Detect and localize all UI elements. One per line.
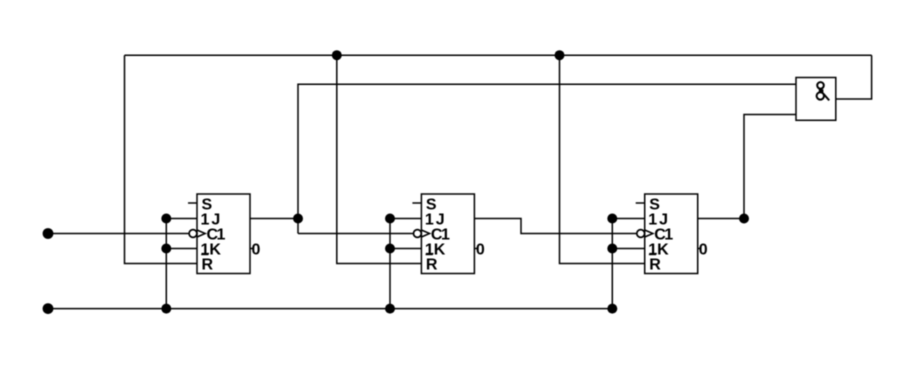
- wire: FF1 Q feedback bus to AND gate input 1: [298, 84, 796, 233]
- wire: clock input terminal to FF1 C1: [48, 233, 189, 235]
- FF1 inverted output stub: [250, 248, 253, 250]
- jk flip-flop FF2: [412, 194, 485, 274]
- FF2 body: [421, 194, 474, 274]
- junction FF1 tie at bottom bus: [161, 304, 171, 314]
- wire: FF3 Q up to AND gate input 2: [744, 115, 796, 219]
- wire: FF1 Q to FF2 C1 clock input: [298, 233, 413, 235]
- junction FF3 1K: [607, 244, 617, 254]
- input terminal: clock input: [43, 228, 54, 239]
- AND gate body: [796, 78, 836, 121]
- FF3 body: [645, 194, 698, 274]
- wire: vertical from reset bus down to FF2 R pin: [337, 55, 422, 263]
- wire: left vertical from reset bus down to FF1 R pin: [125, 55, 198, 263]
- FF3 S pin stub: [636, 202, 645, 204]
- wire: FF2 1J/1K tie vertical to bottom bus: [389, 219, 391, 309]
- wire: AND gate output up to reset bus: [836, 55, 872, 99]
- wire: stub to FF3 1J: [612, 218, 644, 220]
- junction FF2 tie at bottom bus: [385, 304, 395, 314]
- junction FF3 1J: [607, 214, 617, 224]
- FF1 clock wedge: [197, 230, 205, 237]
- AND gate U1: [796, 78, 836, 121]
- wire: stub to FF1 1J: [166, 218, 197, 220]
- wire: FF1 Q output to junction: [250, 218, 298, 220]
- svg-text:R: R: [426, 257, 438, 274]
- wire: FF3 1J/1K tie vertical to bottom bus: [611, 219, 613, 309]
- FF2 clock bubble: [414, 230, 422, 238]
- junction at FF3 Q output corner: [739, 214, 749, 224]
- wire: stub to FF3 1K: [612, 248, 644, 250]
- FF3 clock wedge: [645, 230, 653, 237]
- FF1 body: [197, 194, 250, 274]
- FF3 clock bubble: [637, 230, 645, 238]
- junction FF1 1J: [161, 214, 171, 224]
- junction on reset bus above FF2: [332, 50, 342, 60]
- wire: stub to FF2 1J: [390, 218, 421, 220]
- junction at FF1 Q output: [293, 214, 303, 224]
- wire: FF2 Q output to FF3 C1 clock input: [474, 219, 636, 234]
- svg-text:0: 0: [476, 242, 485, 259]
- junction FF1 1K: [161, 244, 171, 254]
- junction FF3 tie at end of bottom bus: [607, 304, 617, 314]
- input terminal: J/K high input: [43, 303, 54, 314]
- FF1 S pin stub: [188, 202, 197, 204]
- FF3 inverted output stub: [698, 248, 701, 250]
- AND gate label &: [817, 82, 830, 100]
- wire: FF3 Q output to corner: [698, 218, 744, 220]
- FF2 clock wedge: [421, 230, 429, 237]
- svg-text:0: 0: [699, 242, 708, 259]
- wire: stub to FF2 1K: [390, 248, 421, 250]
- FF2 S pin stub: [412, 202, 421, 204]
- jk flip-flop FF3: [636, 194, 708, 274]
- FF2 inverted output stub: [474, 248, 477, 250]
- jk flip-flop FF1: [188, 194, 261, 274]
- wire: vertical from reset bus down to FF3 R pin: [560, 55, 645, 263]
- FF1 clock bubble: [189, 230, 197, 238]
- wire: bottom bus (J/K tie): [48, 308, 612, 310]
- junction FF2 1J: [385, 214, 395, 224]
- junction on reset bus above FF3: [555, 50, 565, 60]
- svg-text:R: R: [202, 257, 214, 274]
- junction FF2 1K: [385, 244, 395, 254]
- wire: stub to FF1 1K: [166, 248, 197, 250]
- svg-text:0: 0: [252, 242, 261, 259]
- svg-text:R: R: [649, 257, 661, 274]
- wire: reset bus (AND output to R pins, top horizontal): [125, 54, 872, 56]
- wire: FF1 1J/1K tie vertical to bottom bus: [165, 219, 167, 309]
